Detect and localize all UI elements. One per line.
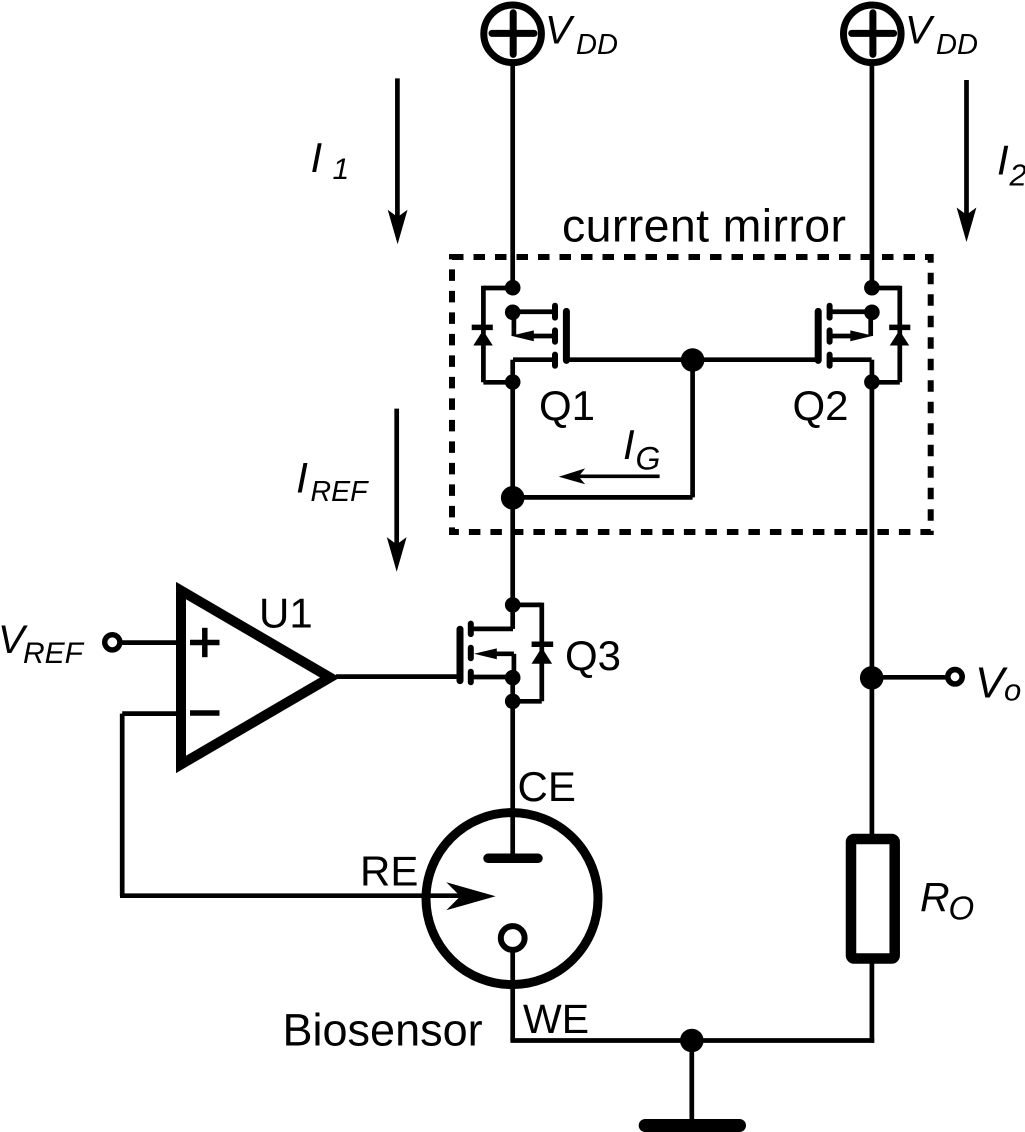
label Vo: [975, 659, 1021, 708]
label Biosensor: [283, 1004, 483, 1055]
svg-text:Biosensor: Biosensor: [283, 1004, 483, 1055]
wire feedback to RE: [120, 893, 485, 898]
node Vo junction: [860, 666, 884, 690]
label U1: [259, 590, 313, 637]
svg-text:V: V: [545, 9, 575, 53]
body diode of Q3: [513, 603, 553, 702]
current arrow IREF: [387, 409, 407, 572]
wire gate bus down: [690, 360, 695, 497]
wire bottom bus: [510, 1038, 874, 1043]
node IREF junction: [501, 486, 525, 510]
svg-text:REF: REF: [311, 476, 370, 508]
label IREF: [296, 454, 369, 508]
label Q3: [565, 632, 621, 679]
wire VDD1 to Q1: [510, 62, 515, 290]
node gate bus junction: [681, 348, 705, 372]
transistor Q3 (NMOS): [460, 605, 514, 682]
current arrow IG: [559, 468, 660, 484]
label I1: [311, 134, 350, 186]
wire Q1 drain down: [510, 382, 515, 607]
electrode CE bar: [488, 854, 538, 864]
electrode RE arrow: [446, 882, 495, 910]
power VDD1 terminal: [484, 5, 542, 63]
terminal Vo: [948, 670, 962, 684]
svg-text:O: O: [949, 890, 975, 927]
svg-text:WE: WE: [523, 996, 589, 1042]
svg-text:Q2: Q2: [793, 382, 849, 429]
svg-text:DD: DD: [576, 29, 618, 61]
transistor Q2 (PMOS): [818, 306, 873, 384]
node Q1 drain-diode junction: [505, 374, 521, 390]
label current mirror: [562, 200, 846, 252]
node Q2 drain-diode junction: [864, 374, 880, 390]
svg-text:I: I: [997, 137, 1009, 184]
label WE: [523, 996, 589, 1042]
label I2: [997, 137, 1025, 193]
label Q2: [793, 382, 849, 429]
node Q1 source-diode junction: [505, 280, 521, 296]
node Q3 drain-diode junction: [505, 597, 521, 613]
label RO: [920, 874, 974, 927]
transistor Q1 (PMOS): [511, 306, 566, 384]
wire op-amp minus input: [122, 711, 178, 716]
svg-text:I: I: [623, 421, 635, 468]
svg-text:RE: RE: [360, 848, 418, 895]
current arrow I1: [388, 78, 408, 244]
wire ground stub: [689, 1041, 694, 1123]
svg-text:V: V: [905, 9, 935, 53]
svg-text:CE: CE: [518, 763, 576, 810]
wire resistor bottom down: [870, 958, 875, 1043]
label VDD1: [545, 9, 618, 62]
svg-text:U1: U1: [259, 590, 313, 637]
svg-text:Q3: Q3: [565, 632, 621, 679]
svg-text:1: 1: [333, 153, 350, 186]
wire Q2 drain down to resistor: [870, 382, 875, 840]
svg-text:R: R: [920, 874, 950, 920]
node Q2 source stub: [864, 305, 880, 321]
svg-text:REF: REF: [23, 637, 85, 670]
label CE: [518, 763, 576, 810]
electrode WE circle: [501, 926, 525, 950]
dashed current-mirror box: [452, 257, 931, 532]
wire VDD2 to Q2: [870, 62, 875, 290]
body diode of Q2: [872, 286, 911, 383]
node Q1 source stub: [505, 305, 521, 321]
svg-text:Q1: Q1: [539, 382, 595, 429]
node Q3 source-diode junction: [505, 694, 521, 710]
wire WE down: [510, 950, 515, 1041]
op-amp U1: [181, 591, 330, 765]
svg-text:2: 2: [1009, 158, 1025, 193]
label RE: [360, 848, 418, 895]
wire Vo to terminal: [872, 675, 946, 680]
node Q3 source stub: [505, 670, 521, 686]
wire feedback down: [120, 714, 125, 896]
label Q1: [539, 382, 595, 429]
label IG: [623, 421, 660, 477]
ground: [645, 1119, 739, 1132]
biosensor circle: [426, 813, 598, 985]
node ground junction: [680, 1029, 704, 1053]
label VREF: [0, 618, 85, 670]
wire op-amp output to Q3 gate: [336, 674, 457, 679]
svg-text:I: I: [311, 134, 323, 181]
wire gate bus Q1-Q2: [566, 357, 818, 362]
current arrow I2: [957, 80, 977, 242]
body diode of Q1: [472, 286, 513, 383]
svg-text:G: G: [636, 441, 661, 477]
svg-text:I: I: [296, 454, 308, 502]
svg-text:DD: DD: [936, 29, 978, 61]
terminal VREF: [105, 635, 178, 650]
node Q2 source-diode junction: [864, 280, 880, 296]
wire Q3 source to biosensor CE: [510, 678, 515, 854]
svg-text:o: o: [1004, 673, 1021, 708]
svg-text:current mirror: current mirror: [562, 200, 846, 252]
power VDD2 terminal: [844, 5, 902, 63]
label VDD2: [905, 9, 978, 62]
wire gate feedback to Q1 drain: [513, 495, 693, 500]
resistor RO: [851, 839, 895, 959]
